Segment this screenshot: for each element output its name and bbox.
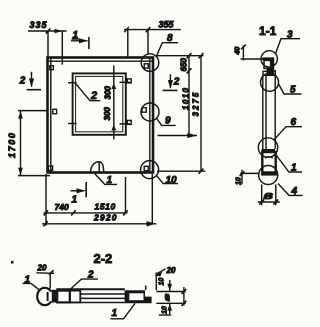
dimension 20 (left, section 2-2) xyxy=(37,263,55,288)
svg-text:3: 3 xyxy=(287,29,293,40)
frame box 2 (section 2-2) xyxy=(70,291,80,303)
svg-text:в: в xyxy=(264,190,274,202)
hook circle (section 2-2) xyxy=(37,288,54,305)
svg-text:5: 5 xyxy=(290,84,296,95)
label 6 xyxy=(274,117,302,140)
opening tie right upper xyxy=(120,79,132,83)
svg-text:40: 40 xyxy=(235,47,242,56)
dimension line b (right, section 2-2) xyxy=(163,287,187,306)
svg-text:2: 2 xyxy=(19,76,26,87)
dimension 3275 xyxy=(192,53,204,174)
extension lines below panel xyxy=(46,174,152,226)
detail circle 9 xyxy=(141,103,159,121)
anchor square top-left xyxy=(50,66,54,70)
opening rectangle xyxy=(73,73,126,134)
anchor square bottom-right xyxy=(144,166,148,170)
right extension lines (section 2-2) xyxy=(156,292,185,304)
opening dimension line 300/300 xyxy=(111,66,116,140)
svg-text:2-2: 2-2 xyxy=(94,251,113,266)
frame box 1 (section 2-2) xyxy=(57,291,70,303)
lifting hole hump on bottom edge xyxy=(91,162,104,172)
svg-text:в: в xyxy=(163,294,172,302)
svg-text:1: 1 xyxy=(72,195,78,206)
detail circle 6 xyxy=(258,138,277,157)
dimension 20 (right, section 2-2) xyxy=(146,266,176,290)
opening tie left upper xyxy=(68,82,77,84)
dimension 10 bottom (right, section 2-2) xyxy=(159,304,172,315)
svg-text:4: 4 xyxy=(291,186,298,197)
right extension line top xyxy=(157,55,204,57)
svg-text:9: 9 xyxy=(165,116,171,127)
body lines (section 2-2) xyxy=(56,289,125,302)
label 2 (section 2-2) xyxy=(69,270,98,291)
detail circle 8 xyxy=(141,54,159,72)
svg-text:6: 6 xyxy=(291,117,297,128)
dimension 355 top-right xyxy=(124,20,181,57)
svg-text:1: 1 xyxy=(112,308,118,319)
detail circle 5 xyxy=(261,73,279,91)
label 5 xyxy=(279,84,302,95)
svg-text:10: 10 xyxy=(235,177,242,185)
label 1 (bottom, section 2-2) xyxy=(111,303,136,319)
detail circle 3 xyxy=(261,51,277,67)
dimension 2920 xyxy=(42,213,156,227)
dimension chain 740/1510 xyxy=(44,202,128,216)
dimension 40 (top of section 1-1) xyxy=(235,45,263,61)
section 1-1 bottom loop assembly xyxy=(262,149,276,175)
label 9 xyxy=(156,116,175,127)
dimension 10 (bottom-left of section 1-1) xyxy=(235,170,259,185)
svg-text:1510: 1510 xyxy=(95,202,116,212)
right end block (section 2-2) xyxy=(125,290,152,303)
dimension b (bottom of section 1-1) xyxy=(258,185,280,206)
svg-text:10: 10 xyxy=(162,306,169,314)
opening tie left lower xyxy=(68,123,77,125)
label 8 xyxy=(156,33,178,56)
section mark 1 bottom xyxy=(71,182,87,206)
svg-text:300: 300 xyxy=(104,86,113,100)
anchor square mid-left xyxy=(53,109,57,113)
svg-text:2: 2 xyxy=(173,77,180,88)
right extension line bottom xyxy=(157,170,206,172)
svg-text:1010: 1010 xyxy=(181,87,190,110)
svg-text:20: 20 xyxy=(166,266,176,275)
svg-text:1: 1 xyxy=(107,175,113,186)
svg-text:3275: 3275 xyxy=(192,91,201,117)
anchor square top-right xyxy=(144,64,148,68)
right extension line middle with arrow xyxy=(158,133,198,138)
svg-text:740: 740 xyxy=(55,202,69,212)
dimension 10 top (right, section 2-2) xyxy=(159,278,173,291)
label 1 (left, section 2-2) xyxy=(23,274,40,289)
svg-text:8: 8 xyxy=(167,33,173,44)
svg-text:10: 10 xyxy=(166,175,178,186)
opening tie right lower xyxy=(120,120,132,124)
svg-text:1700: 1700 xyxy=(7,132,17,158)
label 3 xyxy=(276,29,301,53)
svg-text:300: 300 xyxy=(103,107,112,121)
svg-text:20: 20 xyxy=(37,263,47,272)
section 1-1 body xyxy=(263,70,275,149)
label 1 (section 1-1) xyxy=(277,156,303,174)
svg-text:335: 335 xyxy=(30,20,48,30)
anchor square bottom-left xyxy=(48,166,52,170)
section 1-1 top loop assembly xyxy=(263,57,276,75)
svg-text:1: 1 xyxy=(291,163,297,174)
anchor square mid-right xyxy=(142,108,146,112)
section mark 2 right xyxy=(163,74,180,90)
detail circle 4 xyxy=(259,166,278,185)
detail circle 10 xyxy=(141,161,159,179)
dimension 335 top-left xyxy=(28,20,67,65)
label 2 (opening leader) xyxy=(75,83,100,102)
svg-text:355: 355 xyxy=(159,20,175,30)
label 1 (hump leader) xyxy=(95,174,117,186)
dimension 1700 left xyxy=(7,111,50,176)
svg-text:1-1: 1-1 xyxy=(259,24,277,38)
panel outline (plan view) xyxy=(48,58,154,173)
dimension chain 650/1010 xyxy=(180,53,192,135)
section mark 2 left xyxy=(19,72,41,90)
end plate (section 2-2) xyxy=(52,290,57,303)
svg-text:10: 10 xyxy=(159,278,166,286)
label 4 (section 1-1) xyxy=(278,184,303,197)
scan speck xyxy=(11,261,14,264)
svg-text:650: 650 xyxy=(180,58,189,72)
label 10 xyxy=(157,175,178,186)
svg-text:2920: 2920 xyxy=(93,213,118,223)
svg-text:2: 2 xyxy=(90,90,97,102)
section mark 1 top xyxy=(71,30,89,49)
